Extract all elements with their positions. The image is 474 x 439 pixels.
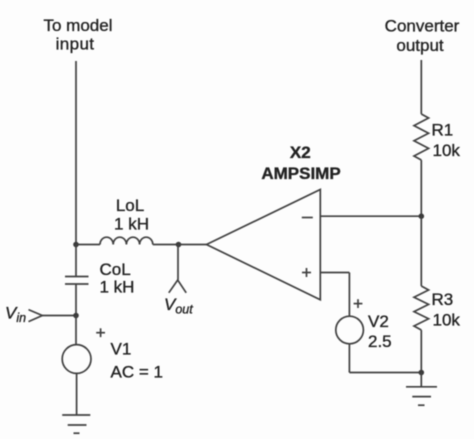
wire: Vout node to op-amp output (179, 244, 207, 246)
wire: inductor to Vout node (153, 244, 179, 246)
node: Vout junction (176, 242, 182, 248)
wire: R1 to feedback node (420, 160, 422, 216)
op-amp inverting input marker (-) (302, 217, 313, 219)
svg-text:Converter: Converter (385, 17, 460, 36)
svg-text:To model: To model (44, 16, 113, 35)
source V2 (circle) (336, 316, 364, 344)
wire: V1 to ground (76, 373, 78, 414)
wire: V2 to bottom-right node (horizontal) (349, 372, 421, 374)
svg-text:V2: V2 (368, 312, 389, 331)
ground (left, below V1) (62, 414, 90, 416)
node: Vin junction (73, 313, 79, 319)
arrow: Vout (open arrowhead pointing up) (169, 280, 186, 293)
svg-text:R1: R1 (432, 121, 454, 140)
wire: feedback node to R3 (420, 216, 422, 286)
arrow: Vin input (open arrowhead pointing right) (29, 310, 43, 322)
wire: model-input column (left vertical) (75, 61, 77, 245)
source V1 (circle) (62, 345, 91, 374)
wire: Vin arrow to node (42, 315, 76, 317)
wire: junction to inductor (76, 244, 100, 246)
capacitor CoL (65, 276, 89, 278)
op-amp non-inverting input marker (+) (302, 272, 311, 274)
wire: bottom node to ground (420, 373, 422, 388)
wire: Vout stub (177, 245, 179, 280)
svg-text:Vin: Vin (5, 304, 26, 326)
svg-text:AC = 1: AC = 1 (111, 363, 163, 382)
resistor R3 (zigzag) (414, 286, 429, 330)
polarity + of V1 (96, 332, 105, 334)
svg-text:1 kH: 1 kH (100, 278, 135, 297)
wire: Vin node to V1 source (75, 316, 77, 345)
node: bottom-right junction (419, 370, 425, 376)
svg-text:AMPSIMP: AMPSIMP (261, 164, 340, 183)
wire: capacitor bottom plate to Vin node (75, 284, 77, 316)
wire: inverting input to feedback node (320, 215, 421, 217)
svg-text:V1: V1 (111, 340, 132, 359)
svg-text:CoL: CoL (100, 260, 131, 279)
svg-text:Vout: Vout (164, 295, 193, 317)
svg-text:1 kH: 1 kH (114, 215, 149, 234)
polarity + of V2 (354, 303, 363, 305)
wire: non-inverting input to V2 (horizontal) (320, 272, 349, 274)
wire: junction to capacitor top plate (75, 245, 77, 277)
ground (right, below divider) (406, 386, 437, 388)
svg-text:R3: R3 (432, 290, 454, 309)
svg-text:10k: 10k (433, 141, 461, 160)
svg-text:input: input (56, 35, 95, 54)
svg-text:output: output (396, 36, 444, 55)
wire: converter-output column (top) (420, 60, 422, 114)
node: feedback divider junction (419, 213, 425, 219)
wire: V2 bottom down (348, 344, 350, 373)
wire: non-inverting input to V2 (vertical) (348, 273, 350, 317)
resistor R1 (zigzag) (414, 114, 429, 160)
inductor L (LoL) (100, 237, 153, 244)
svg-text:10k: 10k (433, 311, 461, 330)
node: LC input junction (73, 242, 79, 248)
op-amp X2 (triangle, output at left apex) (207, 190, 321, 300)
svg-text:LoL: LoL (116, 196, 144, 215)
svg-text:2.5: 2.5 (368, 332, 392, 351)
wire: R3 to bottom node (420, 330, 422, 373)
svg-text:X2: X2 (290, 143, 311, 162)
